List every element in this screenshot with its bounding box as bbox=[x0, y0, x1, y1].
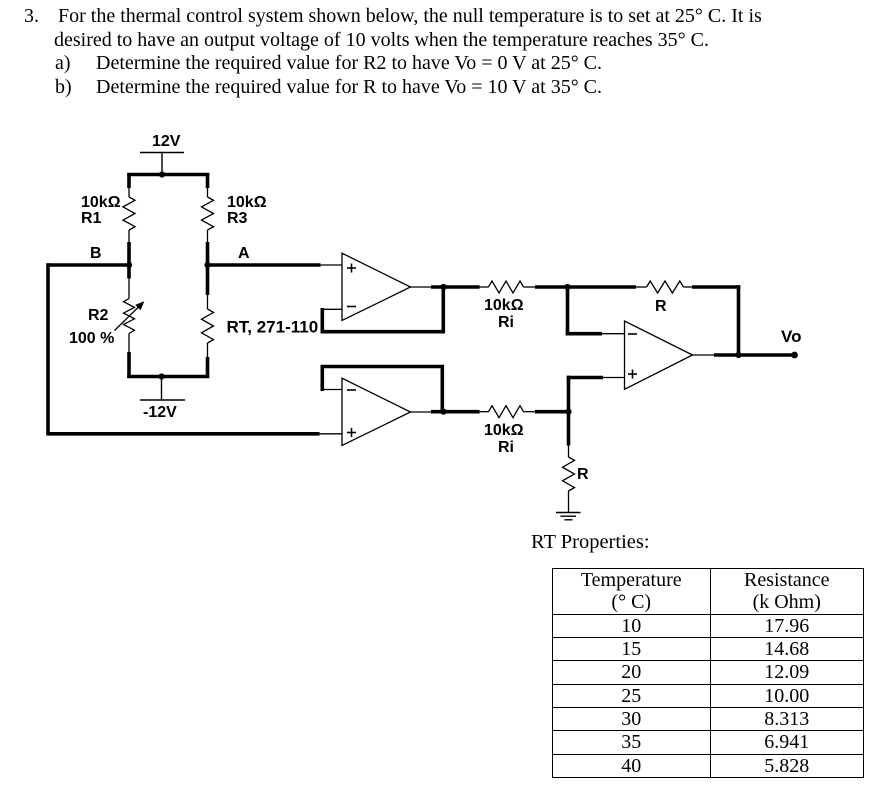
wire U1 - input thin bbox=[321, 308, 342, 310]
svg-text:R: R bbox=[577, 466, 589, 483]
wire U2 - input thin bbox=[321, 389, 342, 391]
+12V supply symbol bbox=[140, 153, 184, 175]
wire R1 top lead bbox=[128, 188, 130, 197]
RT properties table bbox=[552, 568, 864, 778]
svg-text:10kΩ: 10kΩ bbox=[484, 422, 524, 439]
wire U2 output bbox=[431, 410, 480, 414]
wire U3 + input bbox=[567, 376, 603, 380]
svg-text:R1: R1 bbox=[81, 210, 102, 227]
wire Ri1 to summing node bbox=[535, 285, 569, 289]
op-amp U2 bbox=[342, 378, 411, 445]
-12V supply symbol bbox=[140, 377, 185, 401]
wire R left lead bbox=[636, 286, 647, 288]
svg-text:10kΩ: 10kΩ bbox=[484, 297, 524, 314]
wire node B to left rail bbox=[47, 263, 130, 267]
wire top rail bbox=[127, 173, 209, 177]
node Vo terminal bbox=[791, 352, 798, 359]
svg-text:B: B bbox=[90, 245, 102, 262]
wire R3 bottom lead bbox=[207, 230, 209, 242]
node B bbox=[126, 262, 132, 268]
wire node A to op-amp U1 + input bbox=[208, 263, 321, 267]
wire U1 feedback right vertical bbox=[441, 286, 445, 334]
potentiometer R2 bbox=[115, 279, 145, 353]
wire R3 to RT (node A vertical) bbox=[206, 242, 210, 295]
svg-text:RT, 271-110: RT, 271-110 bbox=[227, 318, 319, 337]
svg-text:100 %: 100 % bbox=[69, 330, 114, 347]
wire U2 feedback right vertical bbox=[440, 365, 444, 413]
resistor Ri2 bbox=[489, 406, 524, 418]
wire RT bottom stub bbox=[206, 357, 210, 378]
wire R ground bottom lead bbox=[568, 491, 570, 512]
svg-text:-12V: -12V bbox=[143, 404, 177, 421]
wire R3 top stub bbox=[206, 173, 210, 188]
wire U3 + branch vertical bbox=[567, 376, 571, 414]
wire Ri2 to noninverting node bbox=[535, 410, 570, 414]
resistor R (ground leg) bbox=[563, 457, 575, 491]
wire bottom rail bbox=[127, 375, 209, 379]
op-amp U3 bbox=[625, 321, 693, 389]
node -12V junction bbox=[158, 373, 164, 379]
wire node to R ground leg bbox=[567, 412, 571, 446]
op-amp U1 bbox=[342, 253, 411, 320]
wire U1 feedback bottom bbox=[321, 330, 446, 334]
wire U3 + input thin bbox=[603, 377, 625, 379]
wire U2 feedback top bbox=[321, 365, 445, 369]
wire U3 output thin bbox=[693, 354, 717, 356]
svg-text:10kΩ: 10kΩ bbox=[81, 194, 121, 211]
wire R right lead bbox=[684, 286, 693, 288]
wire U1 + input thin bbox=[321, 264, 343, 266]
node A bbox=[204, 262, 210, 268]
svg-text:R2: R2 bbox=[88, 307, 109, 324]
node inverting summing junction bbox=[564, 284, 570, 290]
node U2 output junction bbox=[440, 409, 446, 415]
wire U3 - input thin bbox=[602, 333, 625, 335]
svg-text:R: R bbox=[655, 298, 667, 315]
wire summing node down bbox=[566, 285, 570, 335]
wire feedback corner down to output bbox=[737, 285, 741, 356]
wire U2 output thin bbox=[411, 411, 434, 413]
resistor R3 bbox=[202, 197, 214, 230]
wire U3 output to Vo bbox=[714, 353, 794, 357]
RT properties heading bbox=[531, 531, 650, 554]
ground bbox=[556, 513, 581, 520]
wire R2 bottom stub bbox=[127, 352, 131, 378]
wire U2 + input thin bbox=[320, 433, 343, 435]
svg-text:12V: 12V bbox=[152, 133, 181, 150]
wire U2 feedback left vertical bbox=[320, 365, 324, 391]
wire R1 bottom lead bbox=[128, 230, 130, 242]
wire left rail vertical bbox=[46, 263, 50, 435]
resistor R1 bbox=[123, 197, 135, 230]
wire Ri2 right lead bbox=[524, 411, 536, 413]
svg-text:Ri: Ri bbox=[498, 314, 514, 331]
svg-text:R3: R3 bbox=[227, 210, 248, 227]
node 12V junction bbox=[159, 171, 165, 177]
wire R to corner bbox=[692, 285, 740, 289]
resistor R (feedback) bbox=[647, 281, 684, 293]
wire to U3 - input bbox=[566, 332, 602, 336]
problem statement text bbox=[24, 5, 39, 28]
wire U1 feedback left vertical bbox=[320, 308, 324, 334]
wire left rail to op-amp U2 + input bbox=[48, 432, 320, 436]
node output junction bbox=[735, 352, 741, 358]
wire Ri1 right lead bbox=[524, 286, 536, 288]
node U1 output junction bbox=[440, 284, 446, 290]
wire U1 output bbox=[431, 285, 480, 289]
wire R1 top stub bbox=[127, 173, 131, 188]
resistor Ri1 bbox=[489, 281, 524, 293]
wire R ground top lead bbox=[568, 446, 570, 458]
svg-text:Vo: Vo bbox=[781, 327, 801, 346]
thermistor RT bbox=[202, 295, 214, 357]
svg-text:Ri: Ri bbox=[498, 439, 514, 456]
wire summing node to feedback R bbox=[568, 285, 637, 289]
wire R1 to R2 (node B vertical) bbox=[127, 242, 131, 279]
svg-text:10kΩ: 10kΩ bbox=[227, 194, 267, 211]
node noninverting junction bbox=[565, 409, 571, 415]
wire Ri1 left lead bbox=[480, 286, 489, 288]
wire U1 output thin bbox=[411, 286, 434, 288]
wire R3 top lead bbox=[207, 188, 209, 197]
svg-text:A: A bbox=[238, 245, 250, 262]
wire Ri2 left lead bbox=[480, 411, 489, 413]
